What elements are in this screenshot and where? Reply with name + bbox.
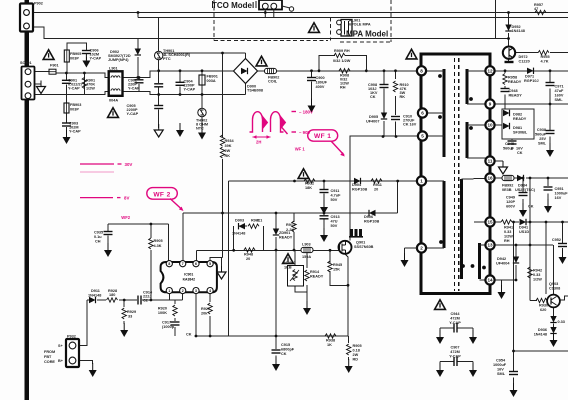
svg-text:R942: R942 <box>533 269 542 273</box>
svg-text:Y-CAP: Y-CAP <box>68 87 80 91</box>
svg-text:003P: 003P <box>70 57 79 61</box>
svg-text:– 90V: – 90V <box>299 130 311 135</box>
svg-text:RD: RD <box>353 358 359 362</box>
svg-text:R934: R934 <box>225 139 235 143</box>
svg-text:B+: B+ <box>58 359 64 363</box>
svg-text:TCO Model: TCO Model <box>212 1 254 10</box>
svg-text:D971: D971 <box>525 75 534 79</box>
svg-text:D982: D982 <box>513 113 522 117</box>
svg-text:R958: R958 <box>508 76 517 80</box>
svg-text:PTC: PTC <box>163 57 171 61</box>
svg-text:0/32 1/2W: 0/32 1/2W <box>333 59 351 63</box>
svg-text:18K: 18K <box>305 186 312 190</box>
svg-text:8: 8 <box>420 69 423 74</box>
svg-text:560uF: 560uF <box>503 147 515 151</box>
svg-text:R911: R911 <box>373 183 382 187</box>
svg-text:2: 2 <box>420 246 423 251</box>
svg-text:COIL: COIL <box>268 80 278 84</box>
svg-text:13: 13 <box>487 243 493 248</box>
svg-text:4: 4 <box>209 289 211 293</box>
svg-text:C951: C951 <box>555 187 564 191</box>
svg-text:CH: CH <box>95 240 101 244</box>
svg-text:560uF: 560uF <box>535 133 547 137</box>
svg-text:WF2: WF2 <box>121 215 131 220</box>
svg-text:FBT: FBT <box>44 355 52 359</box>
svg-text:CK 16V: CK 16V <box>403 123 417 127</box>
svg-text:L901: L901 <box>109 67 118 71</box>
svg-text:D906: D906 <box>364 215 373 219</box>
svg-text:16V: 16V <box>516 147 523 151</box>
svg-text:1KB: 1KB <box>284 266 292 270</box>
svg-text:READY: READY <box>279 236 293 240</box>
svg-text:RH: RH <box>504 239 510 243</box>
svg-text:RGP10B: RGP10B <box>364 220 379 224</box>
svg-text:WF 2: WF 2 <box>153 191 170 198</box>
svg-text:6800pF: 6800pF <box>281 348 295 352</box>
svg-text:16V: 16V <box>555 196 562 200</box>
svg-text:004A: 004A <box>109 99 118 103</box>
svg-text:RH: RH <box>340 86 346 90</box>
svg-text:R912: R912 <box>305 182 314 186</box>
svg-text:P902: P902 <box>34 2 43 6</box>
svg-text:47U: 47U <box>331 220 338 224</box>
svg-text:US1D: US1D <box>519 230 529 234</box>
svg-text:CORE: CORE <box>44 360 55 364</box>
svg-text:D903: D903 <box>235 219 244 223</box>
svg-text:50V: 50V <box>331 224 338 228</box>
svg-text:1000uF: 1000uF <box>555 192 568 196</box>
svg-text:Y-CAP: Y-CAP <box>69 130 81 134</box>
svg-text:1N4148: 1N4148 <box>512 29 525 33</box>
svg-text:UF4007: UF4007 <box>366 120 380 124</box>
svg-text:16: 16 <box>487 176 493 181</box>
svg-text:Y-CAP: Y-CAP <box>127 112 139 116</box>
svg-text:SC901: SC901 <box>20 61 32 65</box>
svg-text:47uF: 47uF <box>555 89 565 93</box>
svg-text:F901: F901 <box>50 64 59 68</box>
svg-text:CK: CK <box>528 205 534 209</box>
svg-text:SF30BL: SF30BL <box>513 131 528 135</box>
svg-text:C911: C911 <box>331 189 340 193</box>
svg-text:0.1u: 0.1u <box>94 235 102 239</box>
svg-text:25V: 25V <box>539 137 546 141</box>
svg-text:Y-CAP: Y-CAP <box>128 87 140 91</box>
svg-text:C1220: C1220 <box>519 60 530 64</box>
svg-text:16V: 16V <box>497 368 504 372</box>
svg-text:120P: 120P <box>506 200 515 204</box>
svg-text:C949: C949 <box>506 196 515 200</box>
svg-text:R905: R905 <box>353 344 362 348</box>
svg-text:READY: READY <box>513 117 527 121</box>
svg-text:5: 5 <box>209 262 211 266</box>
svg-text:1: 1 <box>420 179 423 184</box>
svg-text:CK: CK <box>186 333 192 337</box>
svg-text:FB901: FB901 <box>207 75 218 79</box>
svg-text:FB992: FB992 <box>502 184 513 188</box>
svg-text:VR901: VR901 <box>284 261 296 265</box>
svg-text:100K: 100K <box>158 311 167 315</box>
svg-text:R905: R905 <box>154 239 163 243</box>
svg-text:472M: 472M <box>450 350 460 354</box>
svg-text:READY: READY <box>509 94 523 98</box>
svg-text:003A: 003A <box>207 79 216 83</box>
svg-text:11: 11 <box>488 159 493 164</box>
svg-text:47: 47 <box>534 7 538 11</box>
svg-text:R927: R927 <box>201 307 210 311</box>
svg-text:12: 12 <box>487 69 493 74</box>
svg-text:4.7uF: 4.7uF <box>331 194 342 198</box>
svg-text:R930: R930 <box>539 304 548 308</box>
svg-text:(1000p: (1000p <box>162 325 175 329</box>
svg-text:9: 9 <box>489 102 492 107</box>
svg-text:5: 5 <box>421 134 424 139</box>
svg-text:CK: CK <box>517 151 523 155</box>
svg-text:WF 1: WF 1 <box>314 133 331 140</box>
svg-text:RGP10B: RGP10B <box>352 188 367 192</box>
svg-text:C938: C938 <box>537 128 546 132</box>
svg-text:C945: C945 <box>505 142 514 146</box>
svg-text:WF 1: WF 1 <box>295 147 306 152</box>
svg-text:KA3842: KA3842 <box>183 278 196 282</box>
svg-text:8: 8 <box>168 262 170 266</box>
svg-text:R909 RH: R909 RH <box>334 49 350 53</box>
svg-text:0.18: 0.18 <box>353 349 360 353</box>
svg-text:2: 2 <box>182 289 184 293</box>
svg-text:Q903: Q903 <box>549 282 558 286</box>
svg-text:R941: R941 <box>504 226 513 230</box>
svg-text:1N4148: 1N4148 <box>232 232 245 236</box>
svg-text:1N4148: 1N4148 <box>534 333 547 337</box>
svg-text:D984: D984 <box>518 184 528 188</box>
svg-text:160V: 160V <box>555 94 564 98</box>
svg-text:SML: SML <box>497 372 506 376</box>
svg-text:D941: D941 <box>519 226 528 230</box>
svg-text:R929: R929 <box>127 310 136 314</box>
svg-text:C2: C2 <box>143 299 148 303</box>
svg-text:MPA Model: MPA Model <box>346 30 388 39</box>
svg-text:S+: S+ <box>58 344 64 348</box>
svg-text:RK: RK <box>400 95 406 99</box>
svg-text:4.3K: 4.3K <box>154 244 162 248</box>
svg-text:IC901: IC901 <box>184 273 193 277</box>
svg-text:C907: C907 <box>450 346 459 350</box>
svg-text:D942: D942 <box>497 257 506 261</box>
svg-text:READY: READY <box>310 275 324 279</box>
svg-text:30V: 30V <box>125 162 133 167</box>
svg-text:4.7K: 4.7K <box>541 60 549 64</box>
svg-text:D936: D936 <box>538 328 547 332</box>
svg-text:D905: D905 <box>369 115 378 119</box>
svg-text:150A: 150A <box>302 255 311 259</box>
svg-text:Y-CAP: Y-CAP <box>184 88 196 92</box>
svg-text:RGP10J: RGP10J <box>524 79 539 83</box>
svg-text:180UF: 180UF <box>316 81 328 85</box>
svg-text:3: 3 <box>195 289 197 293</box>
svg-text:D904: D904 <box>352 183 362 187</box>
svg-text:C900: C900 <box>316 76 325 80</box>
svg-text:1000uF: 1000uF <box>493 363 507 367</box>
svg-text:FROM: FROM <box>44 350 55 354</box>
svg-text:Y-CAP: Y-CAP <box>90 57 102 61</box>
svg-text:0.33: 0.33 <box>558 320 565 324</box>
svg-text:SSS7N60B: SSS7N60B <box>354 245 374 249</box>
svg-text:R914: R914 <box>310 270 320 274</box>
svg-text:6: 6 <box>195 262 197 266</box>
svg-text:Y-CAP: Y-CAP <box>449 355 461 359</box>
svg-text:D972: D972 <box>519 55 528 59</box>
svg-text:SML: SML <box>555 98 564 102</box>
svg-text:Y-CAP: Y-CAP <box>449 321 461 325</box>
svg-text:L903: L903 <box>302 243 311 247</box>
svg-text:2W: 2W <box>353 353 359 357</box>
svg-text:R938: R938 <box>326 339 335 343</box>
svg-text:D911: D911 <box>91 289 100 293</box>
svg-text:0.33: 0.33 <box>533 273 540 277</box>
svg-text:C971: C971 <box>555 85 564 89</box>
svg-text:JUMP(NP4): JUMP(NP4) <box>108 58 129 62</box>
svg-text:10: 10 <box>487 123 493 128</box>
svg-text:39K: 39K <box>225 144 232 148</box>
svg-text:20: 20 <box>374 188 378 192</box>
svg-text:1N4148: 1N4148 <box>88 294 101 298</box>
svg-text:D981: D981 <box>513 126 522 130</box>
svg-text:20: 20 <box>246 257 250 261</box>
svg-text:C952: C952 <box>552 238 561 242</box>
svg-text:C1308: C1308 <box>549 287 560 291</box>
svg-text:C915: C915 <box>281 343 290 347</box>
svg-text:RK: RK <box>225 154 231 158</box>
svg-text:50V: 50V <box>331 198 338 202</box>
svg-text:FB905: FB905 <box>70 52 81 56</box>
svg-text:33: 33 <box>128 315 132 319</box>
svg-text:7: 7 <box>182 262 184 266</box>
svg-text:C917: C917 <box>162 321 171 325</box>
svg-text:R920: R920 <box>158 307 167 311</box>
svg-text:C954: C954 <box>496 359 506 363</box>
svg-text:R913: R913 <box>286 223 295 227</box>
svg-text:20k: 20k <box>201 312 208 316</box>
svg-text:P932: P932 <box>67 335 76 339</box>
svg-text:1/2W: 1/2W <box>533 278 542 282</box>
svg-text:CK: CK <box>281 352 287 356</box>
svg-text:2W: 2W <box>225 149 231 153</box>
svg-text:R948: R948 <box>244 253 253 257</box>
svg-text:1/2W: 1/2W <box>86 87 95 91</box>
svg-text:620: 620 <box>540 308 546 312</box>
svg-text:R955: R955 <box>541 55 550 59</box>
svg-text:2H: 2H <box>256 140 261 145</box>
svg-text:1: 1 <box>168 289 170 293</box>
svg-text:180: 180 <box>109 293 115 297</box>
svg-text:R945: R945 <box>333 263 342 267</box>
svg-text:FB903: FB903 <box>70 103 81 107</box>
svg-text:472M: 472M <box>450 317 460 321</box>
svg-text:READY: READY <box>508 80 522 84</box>
svg-text:Q901: Q901 <box>356 241 365 245</box>
svg-text:UF4004: UF4004 <box>496 262 510 266</box>
svg-text:C913: C913 <box>331 215 340 219</box>
svg-text:15: 15 <box>487 220 493 225</box>
svg-text:003P: 003P <box>70 108 79 112</box>
svg-text:SML: SML <box>538 142 547 146</box>
svg-text:1/2W: 1/2W <box>504 235 513 239</box>
svg-text:US2E(TSC): US2E(TSC) <box>515 188 536 192</box>
svg-text:– 180V: – 180V <box>299 110 313 115</box>
svg-text:6: 6 <box>421 111 424 116</box>
svg-text:TS4B008: TS4B008 <box>247 89 263 93</box>
svg-text:400V: 400V <box>316 85 325 89</box>
svg-text:0E3B: 0E3B <box>502 188 512 192</box>
svg-text:ZD901: ZD901 <box>279 231 290 235</box>
svg-text:600V: 600V <box>506 205 515 209</box>
svg-text:1K: 1K <box>327 343 332 347</box>
svg-text:CK: CK <box>370 95 376 99</box>
svg-text:14: 14 <box>487 278 493 283</box>
svg-text:C944: C944 <box>450 312 460 316</box>
svg-text:C935: C935 <box>94 231 103 235</box>
svg-text:15K: 15K <box>333 268 340 272</box>
svg-text:C948: C948 <box>509 89 518 93</box>
svg-text:NTC: NTC <box>196 127 204 131</box>
svg-text:0.33: 0.33 <box>504 230 511 234</box>
svg-text:8V: 8V <box>124 196 129 201</box>
svg-text:6POLE MPA: 6POLE MPA <box>349 23 371 27</box>
svg-text:0.1: 0.1 <box>257 219 262 223</box>
